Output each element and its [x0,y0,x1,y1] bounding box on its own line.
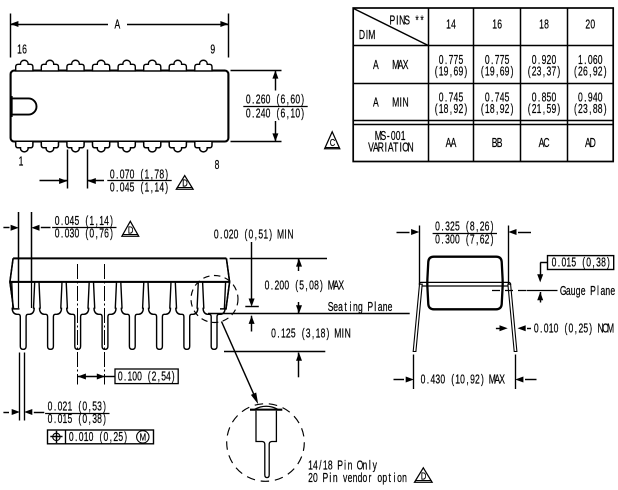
svg-text:C: C [330,137,336,148]
svg-text:(23,88): (23,88) [574,102,607,116]
svg-text:(18,92): (18,92) [435,102,468,116]
svg-text:(19,69): (19,69) [435,65,468,79]
svg-text:16: 16 [17,43,27,57]
svg-text:8: 8 [215,158,220,172]
svg-text:1: 1 [19,155,24,169]
svg-text:AA: AA [446,136,457,150]
svg-text:D: D [128,224,134,235]
svg-text:(19,69): (19,69) [481,65,514,79]
svg-text:DIM: DIM [359,28,376,42]
svg-text:VARIATION: VARIATION [368,141,414,155]
svg-text:SeatingPlane: SeatingPlane [328,300,393,314]
svg-text:D: D [182,177,188,188]
svg-text:(21,59): (21,59) [528,102,561,116]
svg-text:A: A [114,18,120,32]
svg-text:M: M [140,432,147,443]
svg-text:D: D [421,470,427,481]
svg-text:(23,37): (23,37) [528,65,561,79]
svg-text:0.430(10,92)MAX: 0.430(10,92)MAX [421,373,506,387]
svg-text:9: 9 [210,43,215,57]
svg-text:18: 18 [539,18,549,32]
svg-text:14: 14 [446,18,456,32]
svg-text:16: 16 [492,18,502,32]
svg-text:(18,92): (18,92) [481,102,514,116]
svg-text:20: 20 [585,18,595,32]
svg-text:AC: AC [539,136,550,150]
svg-text:AD: AD [585,136,596,150]
svg-text:(26,92): (26,92) [574,65,607,79]
svg-text:BB: BB [492,136,503,150]
